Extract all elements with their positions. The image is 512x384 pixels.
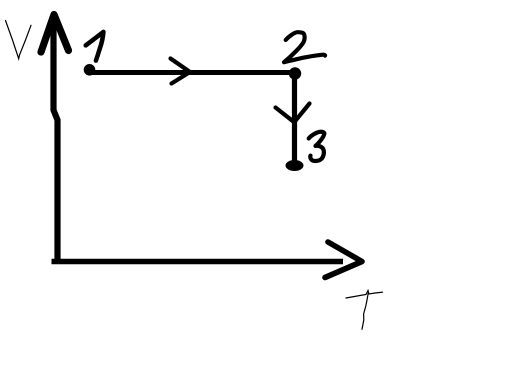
label 1 [86, 32, 104, 61]
label 3 [309, 132, 325, 161]
arrow on wire 1-2 [171, 59, 191, 84]
node 3 [286, 160, 304, 171]
wire 2-3 (process line) [292, 73, 297, 162]
node 1 [84, 64, 96, 76]
arrow on wire 2-3 [276, 104, 310, 123]
wire 1-2 (isotherm/process line) [90, 70, 295, 75]
axis label T [346, 291, 383, 330]
V axis [41, 15, 69, 265]
label 2 [284, 32, 325, 62]
node 2 [289, 67, 301, 79]
T axis [52, 242, 363, 278]
axis label V [6, 21, 32, 59]
